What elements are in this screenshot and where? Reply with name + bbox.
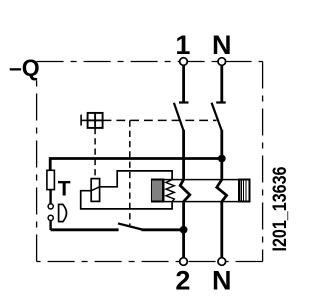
- wire pole1 middle: [182, 130, 185, 181]
- primary conductor kink pole N: [217, 180, 227, 202]
- wire pole1 upper: [182, 62, 185, 102]
- test contact blade: [118, 223, 142, 229]
- terminal N bottom: [218, 258, 226, 266]
- test circuit bottom wire right: [142, 228, 184, 231]
- test circuit bottom wire left: [51, 228, 119, 231]
- svg-text:T: T: [58, 178, 71, 201]
- primary conductor kink pole 1: [180, 180, 190, 202]
- wire poleN lower: [220, 201, 223, 262]
- contact blade pole N: [212, 103, 222, 131]
- wire poleN middle: [220, 130, 223, 181]
- svg-text:N: N: [212, 266, 232, 296]
- wire button contact to bottom: [49, 220, 51, 230]
- secondary circuit wire right: [100, 171, 173, 187]
- junction dot on wire 1: [180, 226, 188, 234]
- device outline -Q (phantom border): [37, 62, 263, 262]
- CT core hatch left: [152, 180, 164, 202]
- fixed contact bar pole N: [216, 101, 226, 103]
- svg-text:2: 2: [175, 266, 190, 296]
- test button actuator T: [59, 204, 67, 223]
- secondary circuit wire left: [81, 191, 172, 209]
- CT core hatch right: [239, 180, 250, 202]
- current transformer core band: [152, 180, 250, 202]
- terminal 2: [180, 258, 188, 266]
- wire resistor to button contact: [49, 190, 51, 205]
- mechanism latch (crossed square): [88, 113, 103, 128]
- svg-text:I201_13636: I201_13636: [270, 167, 291, 252]
- svg-text:–Q: –Q: [9, 55, 40, 81]
- wire pole1 lower: [182, 201, 185, 262]
- terminal 1: [180, 58, 188, 66]
- junction dot on N wire: [218, 155, 226, 163]
- test resistor: [47, 170, 55, 189]
- trip coil through-wire diagonal: [91, 187, 99, 191]
- linkage dashed line to trip coil: [94, 128, 96, 178]
- mechanism anchor tick: [81, 115, 88, 126]
- fixed contact bar pole 1: [179, 101, 189, 103]
- linkage dashed line horizontal: [103, 119, 217, 121]
- terminal N top: [218, 58, 226, 66]
- svg-text:N: N: [212, 30, 232, 60]
- trip coil: [91, 179, 99, 202]
- CT secondary winding zigzag: [166, 180, 174, 202]
- wire poleN upper: [220, 62, 223, 102]
- linkage dashed line to test contact: [129, 120, 131, 225]
- test circuit top wire: [50, 159, 222, 171]
- test button contact circles: [48, 204, 53, 209]
- contact blade pole 1: [174, 103, 184, 131]
- svg-text:1: 1: [175, 30, 190, 60]
